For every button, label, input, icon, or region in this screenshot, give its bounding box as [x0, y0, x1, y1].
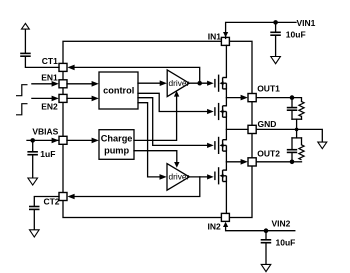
transistor Q4 [215, 167, 227, 184]
pin GND [248, 125, 256, 133]
arrowhead driver2 out to Q4 gate [207, 174, 214, 179]
wire node CT1 return from driver1 output [74, 67, 200, 83]
svg-text:CT2: CT2 [43, 197, 59, 207]
capacitor VIN2 10uF [261, 240, 272, 243]
wire load2 top bar [292, 137, 302, 139]
wire rail Q1 source to Q2 drain [225, 89, 227, 106]
wire EN2 pin to control [67, 97, 94, 99]
wire load2 resistor lead upper [301, 138, 303, 145]
pin CT1 [59, 63, 67, 71]
svg-text:EN1: EN1 [41, 73, 58, 83]
wire OUT2 pin to load [256, 161, 292, 163]
wire load2 capacitor lead upper [291, 138, 293, 149]
svg-text:CT1: CT1 [42, 56, 58, 66]
arrow up supply CT1 [22, 23, 30, 29]
capacitor CT1 [20, 53, 31, 56]
arrowhead into OUT1 [241, 95, 248, 101]
node VIN2 [264, 228, 269, 233]
svg-text:Charge: Charge [101, 134, 133, 144]
node load GND crossing [295, 128, 299, 132]
resistor load1 [299, 102, 304, 117]
capacitor VIN1 10uF [270, 32, 281, 35]
transistor Q2 [215, 103, 227, 120]
wire VBIAS capacitor lead upper [32, 140, 34, 151]
wire EN1 pin to control [67, 83, 94, 85]
wire control to Q3 gate [138, 98, 210, 146]
transistor Q1 [215, 75, 227, 92]
charge pump block [99, 130, 134, 160]
wire VBIAS node to pin [27, 139, 59, 141]
wire CT1 capacitor to pin [25, 57, 59, 68]
wire load1 bottom bar [292, 118, 302, 120]
wire rail Q4 source to IN2 [225, 182, 227, 214]
wire OUT2 tap [226, 161, 241, 163]
svg-text:IN1: IN1 [208, 31, 222, 41]
arrowhead down into driver2 supply [174, 162, 179, 168]
arrowhead EN1 into control [92, 81, 99, 87]
wire CT2 capacitor to ground [33, 210, 35, 229]
svg-text:control: control [103, 85, 134, 95]
wire EN2 source to pin [32, 97, 54, 99]
wire charge pump to driver2 supply [134, 151, 177, 163]
wire VIN2 capacitor to ground [265, 244, 267, 265]
pin VBIAS [59, 136, 67, 144]
svg-text:OUT1: OUT1 [257, 84, 280, 94]
wire load2 capacitor lead lower [291, 153, 293, 162]
svg-text:VIN2: VIN2 [272, 218, 291, 228]
svg-text:IN2: IN2 [207, 222, 221, 232]
arrowhead VBIAS into charge pump [92, 138, 99, 144]
ground VIN1 [271, 57, 281, 64]
wire rail Q2 source to Q3 drain [225, 117, 227, 140]
wire EN1 source to pin [32, 83, 54, 85]
wire control to driver2 input [138, 103, 161, 177]
wire charge pump to driver1 supply [134, 96, 177, 140]
wire node CT2 return from driver2 output [74, 177, 200, 197]
svg-text:10uF: 10uF [286, 29, 306, 39]
node VIN1 [273, 20, 278, 25]
arrowhead into CT2 [67, 194, 74, 200]
node load1 top [290, 95, 295, 100]
ground VBIAS [28, 178, 38, 185]
arrowhead VBIAS into pin [52, 138, 59, 144]
control block [99, 72, 138, 109]
svg-text:VIN1: VIN1 [297, 18, 316, 28]
svg-text:driver: driver [169, 172, 190, 182]
svg-text:driver: driver [169, 78, 190, 88]
wire rail IN1 to Q1 drain [225, 45, 227, 77]
pin OUT1 [248, 94, 256, 102]
wire load1 capacitor lead lower [291, 111, 293, 119]
pin EN1 [59, 80, 67, 88]
svg-text:GND: GND [258, 119, 277, 129]
arrowhead up into IN2 [223, 222, 228, 227]
capacitor C VBIAS 1uF [27, 152, 38, 155]
wire rail Q3 source to Q4 drain [225, 151, 227, 170]
capacitor load1 [287, 108, 297, 111]
pin CT2 [59, 193, 67, 201]
wire VIN1 to IN1 [226, 22, 296, 38]
arrowhead control into driver1 [160, 80, 167, 86]
wire OUT1 pin to load [256, 98, 301, 102]
svg-text:OUT2: OUT2 [257, 148, 280, 158]
wire VBIAS capacitor to ground [32, 156, 34, 178]
svg-text:10uF: 10uF [276, 237, 296, 247]
wire GND tap [226, 128, 248, 130]
arrowhead to Q3 gate [207, 143, 214, 148]
pin EN2 [59, 94, 67, 102]
wire load center stem to GND [296, 119, 298, 138]
ground VIN2 [261, 264, 271, 271]
pin IN1 [221, 37, 229, 45]
wire load2 bottom bar [292, 161, 302, 163]
node VBIAS [30, 138, 35, 143]
op-amp driver2 [167, 164, 190, 191]
arrowhead into CT1 [67, 65, 74, 71]
ground CT2 [30, 230, 40, 237]
wire VBIAS pin to charge pump [67, 139, 94, 141]
wire load1 resistor lead lower [301, 116, 303, 119]
wire control to Q2 gate [138, 93, 210, 111]
arrowhead control into driver2 [160, 174, 167, 180]
wire driver2 output to Q4 gate [189, 176, 210, 178]
wire VIN2 capacitor lead upper [265, 231, 267, 240]
arrowhead into OUT2 [241, 159, 248, 165]
wire CT2 pin to capacitor [34, 197, 59, 206]
arrowhead EN2 into control [92, 96, 99, 102]
wire GND pin to earth [256, 129, 322, 142]
wire VIN2 to IN2 [226, 227, 295, 231]
arrowhead EN2 into pin [52, 96, 59, 102]
op-amp driver1 [167, 70, 189, 97]
wire driver1 output to Q1 gate [189, 82, 210, 84]
ground GND net [318, 142, 327, 149]
pin OUT2 [248, 158, 256, 166]
wire load1 capacitor lead upper [291, 98, 293, 107]
wire CT1 capacitor to top arrow [24, 29, 26, 53]
EN1 step source [16, 85, 28, 96]
EN2 step source [16, 104, 28, 115]
svg-text:EN2: EN2 [41, 101, 58, 111]
capacitor CT2 [29, 207, 40, 210]
wire VIN1 capacitor to ground [275, 36, 277, 57]
svg-text:pump: pump [104, 145, 129, 155]
transistor Q3 [215, 137, 227, 154]
IC body U1 [63, 41, 252, 217]
wire control to driver1 input [138, 82, 162, 84]
arrowhead to Q2 gate [207, 109, 214, 114]
arrowhead driver1 out to Q1 gate [207, 81, 214, 86]
arrowhead up into driver1 supply [174, 91, 179, 97]
node driver1 output [197, 81, 202, 86]
wire VIN1 capacitor lead upper [275, 22, 277, 31]
node load2 bottom [290, 160, 295, 165]
pin IN2 [221, 213, 229, 221]
svg-text:1uF: 1uF [40, 149, 55, 159]
arrowhead EN1 into pin [52, 81, 59, 87]
resistor load2 [299, 145, 304, 160]
arrowhead down into IN1 [223, 32, 228, 37]
capacitor load2 [287, 150, 297, 153]
wire OUT1 tap [226, 97, 241, 99]
svg-text:VBIAS: VBIAS [32, 127, 58, 137]
